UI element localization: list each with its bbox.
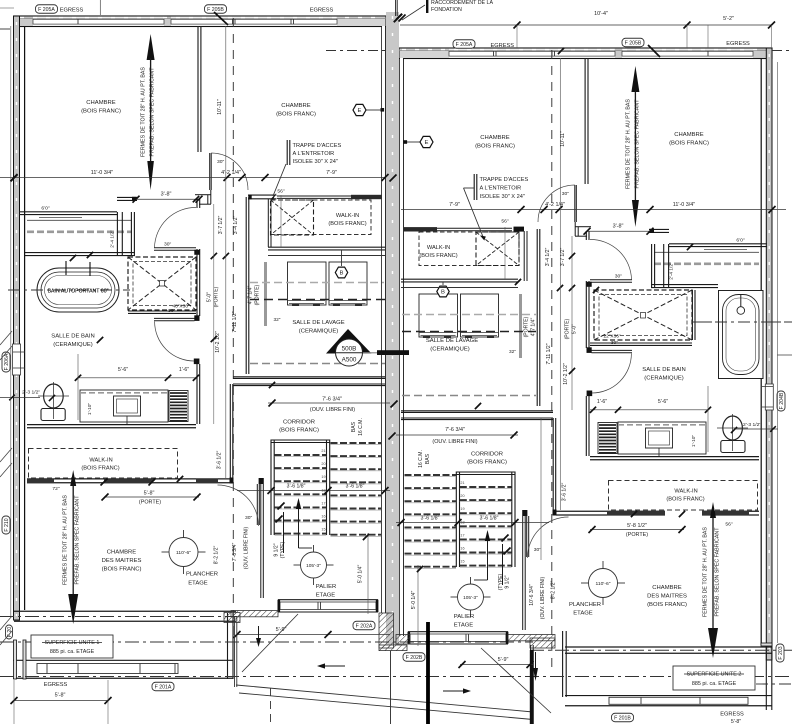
svg-text:CORRIDOR: CORRIDOR — [283, 420, 315, 426]
svg-text:ISOLEE 30" X 24": ISOLEE 30" X 24" — [480, 194, 525, 200]
dashed: laundry2 lower — [402, 331, 536, 333]
svg-text:56": 56" — [725, 522, 733, 528]
deck: diagonal2 — [481, 648, 551, 713]
fixture: shower1 hatched box — [128, 257, 196, 310]
hatch: unit2 landing left ext — [530, 638, 555, 648]
dim: landing1 5-9 — [237, 634, 390, 636]
svg-text:16 C.M.: 16 C.M. — [358, 418, 364, 436]
svg-text:4'-2 1/4": 4'-2 1/4" — [545, 202, 565, 208]
svg-text:885 pi. ca. ETAGE: 885 pi. ca. ETAGE — [50, 649, 95, 655]
arrow: unit2 bottom fermes de toit — [710, 502, 716, 518]
centerline: unit2 porch dashdot — [756, 683, 792, 685]
svg-text:EGRESS: EGRESS — [726, 41, 750, 47]
svg-text:BAS: BAS — [351, 421, 357, 432]
svg-text:(PORTE): (PORTE) — [626, 532, 648, 538]
fixture: dryer1 — [329, 262, 367, 305]
svg-text:105'-3": 105'-3" — [463, 595, 478, 601]
svg-text:RACCORDEMENT DE LA: RACCORDEMENT DE LA — [431, 0, 493, 6]
wall: unit1 walkin north — [248, 194, 277, 196]
marker: hexagon E2 — [404, 141, 420, 143]
svg-text:SALLE DE LAVAGE: SALLE DE LAVAGE — [426, 338, 478, 344]
hatch: attic access 1 — [271, 200, 314, 235]
dashed: laundry1 lower — [250, 299, 385, 301]
label: F201A — [152, 682, 174, 691]
wall: bath2 south — [590, 456, 759, 458]
window: unit2 landing band — [408, 631, 508, 633]
svg-text:5'-8": 5'-8" — [55, 693, 66, 699]
svg-text:A L'ENTRETOIR: A L'ENTRETOIR — [480, 186, 522, 192]
svg-text:(BOIS FRANC): (BOIS FRANC) — [666, 497, 704, 503]
svg-text:30": 30" — [611, 340, 619, 346]
dim: unit1 3-8 line — [136, 198, 199, 200]
fixture: toilet1 — [44, 384, 64, 408]
svg-text:30": 30" — [164, 241, 172, 247]
svg-text:PALIER: PALIER — [316, 584, 336, 590]
wall: unit2 bedroom separator — [584, 58, 586, 184]
fixture: alcove tub 2 — [719, 291, 764, 379]
svg-text:2'-4 1/2": 2'-4 1/2" — [669, 262, 675, 280]
svg-text:15: 15 — [321, 528, 325, 532]
wall: unit2 laundry east — [536, 229, 538, 406]
marker: plancher circle 2 — [589, 569, 618, 598]
label: F205B unit2 — [622, 38, 644, 47]
dim: porte1 — [104, 496, 199, 498]
svg-text:3'-6 1/2": 3'-6 1/2" — [562, 483, 568, 502]
wall: bath2 vert a — [663, 244, 665, 287]
svg-text:EGRESS: EGRESS — [60, 8, 84, 14]
wall: bath2 west — [585, 231, 587, 240]
svg-text:(PORTE): (PORTE) — [255, 284, 261, 305]
note: fondation callout — [426, 0, 428, 13]
deck: vertical dashed — [270, 688, 272, 724]
svg-text:110'-6": 110'-6" — [176, 550, 191, 556]
closet: walk-in upper1 dashed — [271, 200, 371, 235]
svg-text:EGRESS: EGRESS — [310, 8, 334, 14]
wall: unit1 porch/egress wall — [13, 659, 233, 661]
door: unit2 bedroom2 door — [574, 185, 576, 222]
svg-text:2'-4 1/2": 2'-4 1/2" — [110, 230, 116, 248]
svg-text:BAS: BAS — [425, 453, 431, 464]
svg-text:PLANCHER: PLANCHER — [569, 602, 601, 608]
svg-text:3'-4 1/2": 3'-4 1/2" — [233, 216, 239, 235]
fixture: vanity2 — [618, 422, 706, 454]
svg-text:(BOIS FRANC): (BOIS FRANC) — [81, 466, 119, 472]
centerline: top left corner stub — [0, 28, 14, 30]
dim: corridor2 ouv — [396, 434, 518, 436]
svg-text:7'-6 3/4": 7'-6 3/4" — [445, 427, 465, 433]
dim: right edge line — [777, 62, 779, 643]
svg-text:5'-6": 5'-6" — [118, 367, 128, 373]
svg-text:30": 30" — [245, 515, 253, 521]
label: F206A left edge — [2, 352, 10, 372]
section cut: heavy line bottom — [426, 622, 430, 724]
counter: bath1 gray front — [27, 230, 132, 233]
svg-text:CORRIDOR: CORRIDOR — [471, 452, 503, 458]
label: F202B — [403, 653, 425, 662]
label: F204B right edge — [777, 391, 785, 411]
roof: left edge gable marks — [0, 331, 12, 345]
wall: unit1 laundry south — [233, 376, 385, 378]
svg-text:7'-9": 7'-9" — [449, 202, 460, 208]
arrow: deck2 right — [443, 690, 463, 692]
svg-text:110'-6": 110'-6" — [595, 581, 610, 587]
svg-text:(TYPE): (TYPE) — [498, 573, 504, 590]
stairs: unit1 dim 3-6 — [237, 490, 390, 492]
dim: 10-11 vertical u2 — [559, 58, 561, 510]
svg-text:5'-2": 5'-2" — [723, 16, 734, 22]
fixture: linen closet louvers2 — [598, 423, 617, 454]
svg-text:ETAGE: ETAGE — [573, 611, 593, 617]
svg-text:(OUV. LIBRE FINI): (OUV. LIBRE FINI) — [310, 407, 355, 413]
svg-text:3'-8": 3'-8" — [613, 224, 624, 230]
svg-text:5'-0 1/4": 5'-0 1/4" — [358, 565, 364, 584]
svg-text:8'-2 1/2": 8'-2 1/2" — [551, 581, 557, 600]
wall: unit1 hall jogs — [195, 194, 211, 196]
hatch: landing2 right bar — [508, 635, 555, 641]
svg-text:7'-11 1/2": 7'-11 1/2" — [546, 343, 552, 364]
svg-text:A500: A500 — [342, 357, 357, 364]
wall: unit2 porch/egress wall — [565, 695, 772, 697]
door: laundry pocket2 — [519, 294, 522, 358]
svg-text:3’-6 1/8": 3’-6 1/8" — [421, 516, 440, 522]
door: unit2 corridor door — [526, 516, 528, 557]
wall: bath1 east — [196, 199, 198, 208]
wall: unit1 bedroom separator — [197, 26, 199, 152]
svg-text:WALK-IN: WALK-IN — [427, 245, 450, 251]
wall: unit1 master south wall — [14, 610, 236, 612]
svg-text:5'-0 1/4": 5'-0 1/4" — [411, 591, 417, 610]
svg-text:ETAGE: ETAGE — [316, 593, 336, 599]
svg-text:(OUV. LIBRE FINI): (OUV. LIBRE FINI) — [432, 439, 477, 445]
dim: bottom left 5-8 — [14, 700, 108, 702]
wall: unit2 right exterior — [766, 48, 772, 660]
svg-text:CHAMBRE: CHAMBRE — [652, 585, 681, 591]
marker: palier circle 1 — [301, 552, 327, 578]
svg-text:(CERAMIQUE): (CERAMIQUE) — [53, 342, 93, 348]
deck: west edge verticals — [234, 616, 236, 687]
svg-text:105'-3": 105'-3" — [306, 563, 321, 569]
marker: hexagon B2 — [442, 282, 444, 285]
centerline: unit2 master wall dashdot — [530, 649, 792, 651]
stairs: unit2 left flight treads — [405, 474, 457, 476]
closet: walk-in lower1 dashed — [29, 449, 178, 479]
svg-text:EGRESS: EGRESS — [720, 712, 744, 718]
marker: section 500B/A500 — [326, 329, 372, 354]
svg-text:(BOIS FRANC): (BOIS FRANC) — [81, 109, 121, 115]
svg-text:CHAMBRE: CHAMBRE — [86, 100, 115, 106]
svg-text:(BOIS FRANC): (BOIS FRANC) — [279, 428, 319, 434]
svg-text:885 pi. ca. ETAGE: 885 pi. ca. ETAGE — [692, 681, 737, 687]
svg-text:TRAPPE D'ACCES: TRAPPE D'ACCES — [293, 143, 342, 149]
deck: sloped roof lines — [236, 685, 533, 712]
svg-text:3’-6 1/8": 3’-6 1/8" — [346, 484, 365, 490]
label: F203 right edge — [776, 644, 784, 662]
centerline: unit1 master wall dashdot — [0, 616, 237, 618]
wall: unit2 laundry south — [401, 410, 553, 412]
arrow: landing2 down — [535, 652, 537, 670]
fixture: washer1 — [288, 262, 327, 305]
door: bath1 upper door — [154, 247, 196, 249]
dim: landing2 5-9 — [460, 664, 533, 666]
svg-text:(PORTE): (PORTE) — [565, 318, 571, 339]
svg-text:PREFAB. SELON SPEC FABRICANT: PREFAB. SELON SPEC FABRICANT — [634, 99, 640, 189]
line: laundry1 bulkhead — [268, 255, 385, 257]
wall: central party wall — [386, 12, 399, 645]
svg-text:B: B — [340, 271, 344, 277]
door: unit1 bedroom2 door — [209, 153, 211, 190]
arrow: unit1 bottom fermes de toit — [70, 470, 76, 486]
note: trappe acces 1 — [286, 140, 288, 165]
svg-text:FONDATION: FONDATION — [431, 7, 462, 13]
arrow: deck1 left — [325, 665, 345, 667]
wall: unit2 bath north — [649, 228, 669, 230]
svg-text:CHAMBRE: CHAMBRE — [107, 550, 136, 556]
wall: bath1 knee wall — [25, 252, 135, 254]
fixture: washer2 — [419, 294, 458, 337]
label: F210 left edge — [2, 516, 10, 534]
wall: unit2 porch west — [530, 645, 532, 724]
svg-text:17: 17 — [321, 501, 325, 505]
svg-text:4'-7 1/4": 4'-7 1/4" — [531, 318, 537, 337]
svg-text:(BOIS FRANC): (BOIS FRANC) — [475, 144, 515, 150]
svg-text:10'-2 1/2": 10'-2 1/2" — [215, 331, 221, 353]
svg-text:F 201B: F 201B — [614, 716, 631, 722]
wall: unit1 stair-landing wall — [260, 478, 262, 598]
hatch: unit1 porch corner — [224, 613, 240, 623]
fixture: freestanding tub BAIN AUTOPORTANT — [37, 268, 119, 312]
misc: right wall stub — [777, 354, 792, 356]
svg-text:(BOIS FRANC): (BOIS FRANC) — [669, 141, 709, 147]
dim: 10-11 vertical u1 — [225, 26, 227, 478]
svg-text:56": 56" — [277, 189, 285, 195]
svg-text:ISOLEE 30" X 24": ISOLEE 30" X 24" — [293, 159, 338, 165]
wall: unit1 corridor west — [229, 384, 231, 478]
svg-text:30": 30" — [562, 191, 570, 197]
wall: bath1 south — [27, 424, 196, 426]
stairs: unit2 stairwell box — [455, 472, 457, 568]
wall: unit2 stair-landing wall — [522, 510, 524, 630]
wall: unit2 top exterior — [399, 48, 772, 59]
stairs: unit2 dim 3-6 — [396, 522, 549, 524]
deck: vertical solid right of porch1 — [390, 651, 392, 724]
svg-text:BAIN AUTOPORTANT 60": BAIN AUTOPORTANT 60" — [48, 289, 109, 295]
hatch: party wall bottom L — [379, 613, 394, 648]
dim: unit2 top exterior — [400, 24, 772, 26]
dim: unit2 3-8 line — [587, 230, 650, 232]
counter: bath2 gray front — [654, 262, 759, 265]
svg-text:17: 17 — [460, 533, 464, 537]
svg-text:E: E — [358, 108, 362, 114]
wall: unit1 laundry north — [268, 246, 385, 248]
svg-text:ETAGE: ETAGE — [454, 623, 474, 629]
stairs: unit2 right flight treads — [460, 486, 512, 488]
svg-text:SUPERFICIE UNITE 1: SUPERFICIE UNITE 1 — [45, 640, 100, 646]
dim: stair ext verticals — [367, 533, 369, 614]
centerline: bath2 dashdot overlay — [692, 321, 792, 323]
svg-text:10'-2 1/2": 10'-2 1/2" — [563, 363, 569, 385]
svg-text:B: B — [441, 290, 445, 296]
svg-text:PREFAB. SELON SPEC FABRICANT: PREFAB. SELON SPEC FABRICANT — [714, 527, 720, 617]
svg-text:(TYPE): (TYPE) — [280, 541, 286, 558]
svg-text:(CERAMIQUE): (CERAMIQUE) — [644, 376, 684, 382]
wall: bath1 shower south — [128, 310, 196, 312]
svg-text:56": 56" — [501, 219, 509, 225]
svg-text:(BOIS FRANC): (BOIS FRANC) — [467, 460, 507, 466]
svg-text:F 205A: F 205A — [38, 7, 55, 13]
wall: bath2 shower south — [590, 342, 692, 344]
wall: unit1 bath north — [117, 196, 137, 198]
dim: left edge line — [10, 26, 12, 616]
wall: bath2 north/vanity — [669, 243, 767, 245]
fixture: dryer2 — [461, 294, 499, 337]
svg-text:WALK-IN: WALK-IN — [336, 213, 359, 219]
svg-text:18: 18 — [460, 520, 464, 524]
svg-text:11'-0 3/4": 11'-0 3/4" — [673, 202, 695, 208]
svg-text:(CERAMIQUE): (CERAMIQUE) — [299, 329, 339, 335]
svg-text:WALK-IN: WALK-IN — [89, 458, 112, 464]
stairs: unit1 stairwell box — [270, 440, 272, 536]
svg-text:32": 32" — [509, 349, 516, 355]
note: superficie unite 2 — [673, 666, 755, 690]
label: F205B unit1 — [205, 5, 227, 14]
svg-text:F 205B: F 205B — [207, 7, 224, 13]
dashed: laundry2 soffit — [402, 395, 536, 397]
svg-text:15: 15 — [460, 560, 464, 564]
svg-text:3’-6 1/8": 3’-6 1/8" — [287, 484, 306, 490]
fixture: vanity1 — [80, 390, 168, 422]
dim: misc extension lines — [540, 418, 542, 560]
svg-text:(PORTE): (PORTE) — [524, 316, 530, 337]
svg-text:3'-8": 3'-8" — [161, 192, 172, 198]
svg-text:2'-3 1/2": 2'-3 1/2" — [743, 422, 761, 428]
hatch: landing2 left bar — [396, 635, 410, 645]
arrow: landing1 down — [258, 626, 260, 640]
svg-text:(BOIS FRANC): (BOIS FRANC) — [276, 112, 316, 118]
door: unit1 corridor door — [256, 484, 258, 525]
svg-text:SALLE DE BAIN: SALLE DE BAIN — [51, 334, 94, 340]
svg-text:E: E — [425, 140, 429, 146]
svg-text:CHAMBRE: CHAMBRE — [674, 132, 703, 138]
svg-text:4'-2 1/4": 4'-2 1/4" — [221, 170, 241, 176]
svg-text:10'-4": 10'-4" — [594, 11, 608, 17]
centerline: laundry1 dash — [250, 282, 384, 284]
svg-text:F 202B: F 202B — [406, 655, 423, 661]
arrow: unit1 top fermes de toit — [147, 34, 155, 60]
svg-text:22"X36": 22"X36" — [603, 334, 620, 340]
svg-text:EGRESS: EGRESS — [44, 682, 68, 688]
svg-text:5'-9": 5'-9" — [498, 657, 509, 663]
svg-text:FERMES DE TOIT 28" H. AU PT. B: FERMES DE TOIT 28" H. AU PT. BAS — [141, 67, 147, 157]
svg-text:16: 16 — [321, 515, 325, 519]
wall: unit1 laundry west — [245, 197, 247, 374]
svg-text:(CERAMIQUE): (CERAMIQUE) — [430, 347, 470, 353]
svg-text:5'-8 1/2": 5'-8 1/2" — [627, 523, 647, 529]
closet: walk-in upper2 dashed — [419, 232, 519, 266]
centerline: top left of unit2 stub — [326, 50, 386, 52]
fixture: linen closet louvers1 — [169, 391, 188, 422]
svg-text:3’-6 1/8": 3’-6 1/8" — [480, 516, 499, 522]
svg-text:10'-11": 10'-11" — [217, 99, 223, 115]
stairs: unit1 right flight treads — [331, 442, 382, 444]
dim: corridor1 ouv — [268, 402, 390, 404]
label: F201B — [612, 713, 634, 722]
svg-text:F 205B: F 205B — [625, 41, 642, 47]
svg-text:19: 19 — [321, 475, 325, 479]
wall: unit2 master north w/ door — [556, 510, 665, 512]
arrow: unit2 top fermes de toit — [631, 66, 639, 92]
svg-text:7'-6 3/4": 7'-6 3/4" — [232, 543, 238, 562]
marker: plancher circle 1 — [169, 538, 198, 567]
door: bath2 lower door — [592, 349, 633, 351]
wall: unit2 corridor east — [552, 418, 554, 510]
svg-text:7'-11 1/2": 7'-11 1/2" — [232, 311, 238, 332]
note: superficie unite 1 — [31, 635, 113, 658]
wall: unit1 top exterior — [14, 16, 386, 27]
svg-text:3'-7 1/2": 3'-7 1/2" — [560, 248, 566, 267]
svg-text:(OUV. LIBRE FINI): (OUV. LIBRE FINI) — [244, 526, 250, 569]
stairs: unit1 up arrow — [298, 505, 300, 548]
svg-text:(BOIS FRANC): (BOIS FRANC) — [328, 221, 366, 227]
centerline: bath1 tub dashdot overlay — [8, 289, 130, 291]
centerline: property line unit1 — [232, 18, 234, 640]
svg-text:F 210: F 210 — [4, 518, 10, 531]
label: F205A unit1 — [36, 5, 58, 14]
svg-text:CHAMBRE: CHAMBRE — [480, 135, 509, 141]
svg-text:30": 30" — [615, 273, 623, 279]
svg-text:3'-6 1/2": 3'-6 1/2" — [217, 451, 223, 470]
centerline: property line unit2 — [551, 50, 553, 672]
wall: bath2 vert b — [651, 244, 653, 287]
svg-text:FERMES DE TOIT 28" H. AU PT. B: FERMES DE TOIT 28" H. AU PT. BAS — [63, 495, 69, 585]
dim: unit1 upper interior line — [0, 177, 385, 179]
svg-text:DES MAITRES: DES MAITRES — [102, 558, 142, 564]
svg-text:2'-3 1/2": 2'-3 1/2" — [22, 390, 40, 396]
svg-text:SALLE DE BAIN: SALLE DE BAIN — [642, 367, 685, 373]
svg-text:32": 32" — [274, 317, 281, 323]
svg-text:1'-10": 1'-10" — [87, 403, 93, 415]
svg-text:PREFAB. SELON SPEC FABRICANT: PREFAB. SELON SPEC FABRICANT — [75, 495, 81, 585]
svg-text:ETAGE: ETAGE — [188, 581, 208, 587]
line: laundry2 bulkhead — [401, 287, 518, 289]
dim: unit1 top left stub — [99, 0, 101, 15]
svg-text:1'-6": 1'-6" — [597, 399, 607, 405]
wall: unit2 porch west fill — [530, 650, 534, 724]
svg-text:4'-7 1/4": 4'-7 1/4" — [248, 286, 254, 305]
stairs: unit2 up arrow — [487, 537, 489, 580]
wall: unit1 walkin west — [267, 199, 269, 247]
dim: porte2 — [590, 529, 684, 531]
svg-text:F 204B: F 204B — [779, 392, 785, 409]
label: F205A unit2 — [453, 40, 475, 49]
svg-text:10'-11": 10'-11" — [560, 131, 566, 147]
svg-text:16 C.M.: 16 C.M. — [418, 450, 424, 468]
svg-text:CHAMBRE: CHAMBRE — [281, 103, 310, 109]
centerline: deck dashdot lower — [0, 676, 792, 678]
svg-text:500B: 500B — [342, 346, 357, 353]
wall: unit1 master north w/ door — [27, 478, 231, 480]
marker: hexagon E1 — [366, 109, 382, 111]
dim: unit2 upper interior line — [401, 209, 786, 211]
wall: unit2 laundry north — [401, 278, 518, 280]
svg-text:5'-6": 5'-6" — [658, 399, 668, 405]
window: unit1 landing band — [278, 599, 378, 601]
centerline: deck dashdot upper — [0, 641, 533, 643]
note: trappe acces 2 — [473, 174, 475, 200]
svg-text:FERMES DE TOIT 28" H. AU PT. B: FERMES DE TOIT 28" H. AU PT. BAS — [625, 99, 631, 189]
door: laundry pocket1 — [264, 262, 267, 326]
svg-text:3'-4 1/2": 3'-4 1/2" — [545, 248, 551, 267]
svg-text:PREFAB. SELON SPEC FABRICANT: PREFAB. SELON SPEC FABRICANT — [150, 67, 156, 157]
